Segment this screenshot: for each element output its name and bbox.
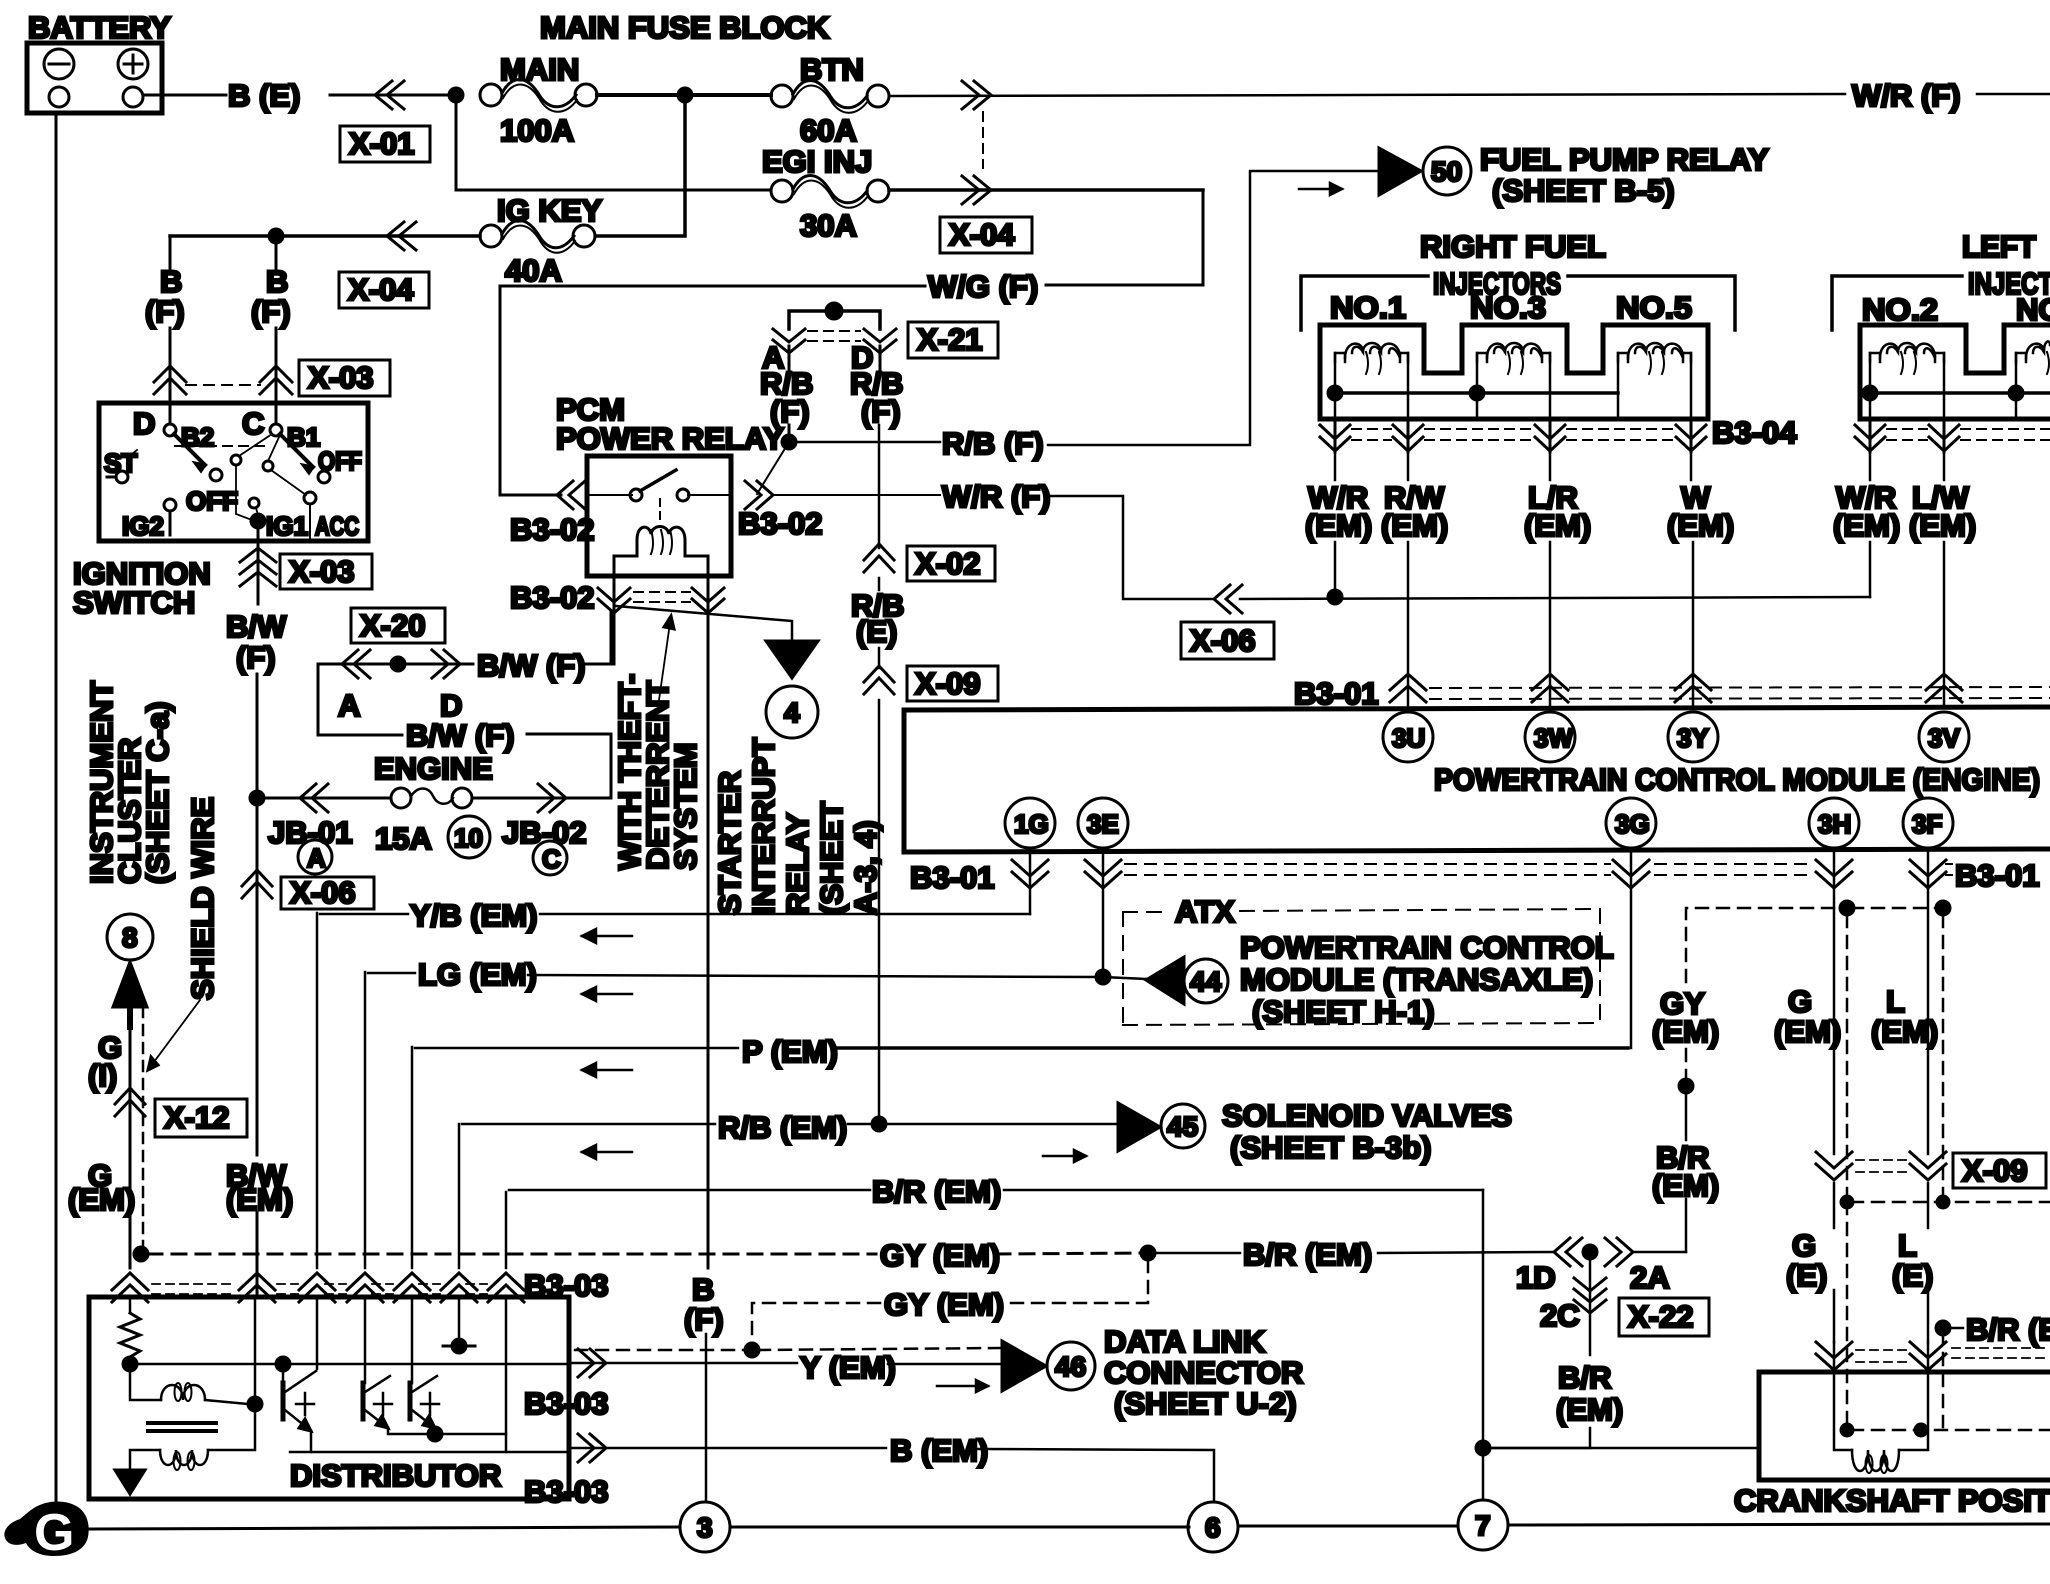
wire LG to transaxle module — [1103, 977, 1146, 979]
svg-text:DATA LINK: DATA LINK — [1104, 1324, 1266, 1359]
connector B3-01 top chevrons — [1390, 674, 2050, 702]
pin 3V circled — [1919, 712, 1969, 762]
svg-text:STARTER: STARTER — [712, 771, 747, 915]
ATX dashed box — [1123, 909, 1600, 1025]
connector X-01 label — [340, 126, 430, 162]
junction dot gy 3h — [1840, 901, 1854, 915]
connector X-21 bracket — [789, 311, 880, 329]
junction dot shield br e — [1936, 1321, 1950, 1335]
svg-text:NO.5: NO.5 — [1616, 290, 1692, 325]
svg-text:(SHEET C-a): (SHEET C-a) — [140, 701, 175, 884]
arrow connector 46 — [1002, 1341, 1046, 1391]
svg-text:(E): (E) — [1892, 1258, 1933, 1293]
svg-text:3G: 3G — [1615, 809, 1650, 839]
svg-text:(EM): (EM) — [1652, 1168, 1719, 1203]
svg-text:G: G — [34, 1504, 74, 1562]
junction dot R/B join — [872, 1117, 886, 1131]
svg-text:OFF: OFF — [186, 486, 238, 516]
pin 3H circled — [1809, 798, 1859, 848]
connector X-06 label mid — [1181, 622, 1274, 659]
fuse BTN 60A — [771, 52, 889, 148]
injector INJ4 coil partial — [2016, 341, 2050, 419]
wire emitter bus q2 q3 — [388, 1428, 506, 1434]
svg-text:B/R (E: B/R (E — [1966, 1312, 2050, 1347]
connector X-06 chevron mid — [1214, 585, 1242, 613]
wire coil left leg down to B/W — [613, 612, 616, 664]
svg-text:3E: 3E — [1087, 809, 1119, 839]
wire br col inside — [505, 1297, 508, 1452]
svg-text:X-06: X-06 — [290, 875, 355, 910]
pin 7 circled — [1458, 1500, 1508, 1550]
svg-text:(I): (I) — [88, 1058, 117, 1093]
connector X-04 label right — [940, 217, 1032, 253]
wire A stub — [788, 346, 791, 371]
svg-text:C: C — [542, 844, 561, 874]
wire W/R EM left bank elbow — [1869, 452, 1872, 480]
distributor box — [89, 1297, 569, 1499]
arrow flow right y — [937, 1380, 988, 1392]
pin 3 circled — [680, 1502, 730, 1552]
svg-text:X-03: X-03 — [289, 554, 354, 589]
svg-text:3U: 3U — [1392, 723, 1425, 753]
connector X-03 label lower — [280, 554, 372, 589]
junction dot X-20 — [391, 657, 405, 671]
svg-text:ATX: ATX — [1175, 894, 1235, 929]
junction dot shield g — [1841, 1196, 1853, 1208]
pin 44 circled — [1184, 959, 1228, 1003]
svg-text:(EM): (EM) — [1652, 1014, 1719, 1049]
wire 3E down — [1102, 848, 1105, 977]
wire IG KEY output left — [170, 234, 480, 238]
wire ignition feeds into box — [169, 396, 172, 424]
wire R/B(E) seg2 — [878, 648, 881, 668]
label with theft deterrent system — [612, 674, 703, 870]
pin 3F circled — [1903, 798, 1953, 848]
wire B/W down to engine fuse — [256, 674, 259, 798]
wire MAIN junction down to IG KEY — [596, 95, 685, 236]
wire B/W down to distributor — [256, 798, 259, 1155]
arrow flow right 45 — [1043, 1150, 1086, 1162]
svg-text:1D: 1D — [1516, 1260, 1556, 1295]
bracket right injectors — [1301, 276, 1428, 330]
wire igniter bus — [130, 1363, 566, 1366]
svg-text:C: C — [242, 406, 264, 441]
wire crank feed right — [1486, 1447, 1759, 1450]
svg-text:8: 8 — [122, 922, 138, 953]
wire R/B(F) diag to relay out — [757, 442, 789, 494]
svg-text:(EM): (EM) — [1774, 1014, 1841, 1049]
wire injector power bus left bank — [1870, 391, 2050, 395]
wire R/B (EM) — [458, 1124, 461, 1268]
arrow connector 50 — [1379, 148, 1421, 195]
junction dot X-21 — [826, 303, 842, 319]
svg-text:X-09: X-09 — [1962, 1153, 2027, 1188]
junction dot engine fuse left — [250, 791, 264, 805]
svg-text:B3-02: B3-02 — [738, 506, 822, 541]
svg-text:(E): (E) — [856, 614, 897, 649]
wire W/G to PCM relay — [500, 286, 925, 495]
connector X-12 chevrons — [115, 1088, 145, 1116]
injector INJ2 coil — [1870, 343, 1944, 419]
junction dot gy 3f — [1936, 901, 1950, 915]
label instrument cluster — [84, 681, 175, 884]
connector X-01 chevrons — [375, 81, 404, 109]
svg-text:B/R (EM): B/R (EM) — [1243, 1237, 1372, 1272]
wire R/B(F) line — [789, 441, 940, 444]
svg-text:GY (EM): GY (EM) — [880, 1238, 1000, 1273]
transistor Q1 — [283, 1364, 316, 1452]
svg-text:B/W (F): B/W (F) — [477, 648, 585, 683]
svg-text:SWITCH: SWITCH — [73, 585, 195, 620]
wire P (EM) — [411, 1047, 414, 1268]
svg-text:(SHEET B-3b): (SHEET B-3b) — [1230, 1130, 1432, 1165]
sensor coil — [1834, 1342, 1928, 1473]
injector INJ1 coil — [1335, 343, 1408, 419]
junction dot shield g2 — [1841, 1424, 1853, 1436]
resistor R1 — [120, 1297, 140, 1364]
PCM engine box — [904, 707, 2050, 852]
wire L/R EM down to 3W — [1549, 452, 1552, 480]
wire B(F) resume — [705, 1334, 708, 1502]
junction dot seven — [1476, 1441, 1490, 1455]
connector X-06 label — [281, 877, 374, 909]
svg-text:X-22: X-22 — [1628, 1299, 1693, 1334]
wire LG (EM) — [364, 972, 367, 1268]
connector X-22 chevron left — [1554, 1238, 1582, 1266]
svg-text:CRANKSHAFT POSITI: CRANKSHAFT POSITI — [1734, 1483, 2050, 1518]
svg-text:X-04: X-04 — [348, 272, 414, 307]
wire B/R (EM) top — [505, 1192, 508, 1268]
svg-text:NO.2: NO.2 — [1862, 292, 1938, 327]
connector X-12 label — [155, 1099, 247, 1137]
svg-text:POWER RELAY: POWER RELAY — [556, 421, 784, 456]
connector X-06 chevrons — [242, 870, 272, 898]
svg-text:X-21: X-21 — [917, 322, 982, 357]
wire IG1 output — [257, 528, 260, 546]
svg-text:W/G (F): W/G (F) — [928, 269, 1038, 304]
svg-text:ST: ST — [104, 448, 137, 478]
wire shield dashed — [142, 1007, 145, 1252]
connector X-21 chevrons A — [773, 329, 805, 353]
svg-text:X-01: X-01 — [349, 126, 414, 161]
svg-text:B/R (EM): B/R (EM) — [872, 1174, 1001, 1209]
pin 4 circled — [766, 686, 818, 738]
svg-text:W/R (F): W/R (F) — [942, 479, 1050, 514]
svg-text:X-20: X-20 — [360, 608, 425, 643]
svg-text:B3-02: B3-02 — [510, 512, 594, 547]
svg-text:40A: 40A — [505, 253, 562, 288]
connector B3-03 chevron y — [578, 1349, 606, 1377]
junction dot coil top — [248, 1397, 262, 1411]
ignition coil T1 secondary — [130, 1411, 255, 1470]
pin 3G circled — [1606, 798, 1656, 848]
svg-text:3Y: 3Y — [1677, 723, 1709, 753]
svg-text:100A: 100A — [500, 113, 574, 148]
junction dot inj2 — [1863, 386, 1877, 400]
connector JB-01 chevrons — [300, 784, 328, 812]
svg-text:B3-01: B3-01 — [1294, 676, 1378, 711]
svg-text:(EM): (EM) — [1909, 508, 1976, 543]
svg-text:IG2: IG2 — [122, 511, 164, 541]
svg-text:SOLENOID VALVES: SOLENOID VALVES — [1222, 1098, 1512, 1133]
wire coil right leg down (B F) — [707, 612, 710, 1268]
svg-text:3F: 3F — [1912, 809, 1942, 839]
arrow connector 4 — [766, 641, 818, 678]
svg-text:(EM): (EM) — [1305, 508, 1372, 543]
svg-text:R/B (EM): R/B (EM) — [718, 1110, 847, 1145]
svg-text:3: 3 — [697, 1512, 713, 1543]
svg-text:60A: 60A — [800, 113, 857, 148]
wire B/W resume — [256, 1213, 259, 1297]
svg-text:(F): (F) — [861, 394, 901, 429]
fuse MAIN 100A — [480, 52, 597, 148]
svg-text:(F): (F) — [236, 640, 276, 675]
wire shield bus dashed right — [1851, 1201, 2050, 1204]
connector chevrons IG KEY — [387, 222, 416, 250]
connector X-03 label — [299, 360, 390, 396]
pin C circled — [533, 841, 567, 875]
svg-text:(EM): (EM) — [1667, 508, 1734, 543]
svg-text:(EM): (EM) — [226, 1182, 293, 1217]
svg-text:(EM): (EM) — [1556, 1392, 1623, 1427]
wire lg into q2 — [364, 1297, 367, 1383]
fuse IG KEY 40A — [480, 193, 602, 288]
connector X-09 chevrons — [864, 666, 894, 694]
svg-text:R/B (F): R/B (F) — [942, 426, 1044, 461]
wire EGI corner down to W/G — [1046, 190, 1203, 285]
connector X-02 chevrons — [864, 544, 894, 572]
svg-text:(EM): (EM) — [1381, 508, 1448, 543]
svg-text:MODULE (TRANSAXLE): MODULE (TRANSAXLE) — [1240, 962, 1593, 997]
arrow connector 45 — [1118, 1103, 1160, 1151]
wire MAIN to BTN — [597, 93, 771, 97]
wire relay contact — [587, 494, 632, 496]
connector X-09 right chevrons — [1816, 1152, 1946, 1180]
pin 1G circled — [1005, 798, 1055, 848]
wire ground bus — [90, 1527, 680, 1529]
connector chevrons after EGI — [962, 176, 991, 204]
transformer core — [148, 1421, 216, 1425]
svg-text:LEFT: LEFT — [1962, 229, 2036, 264]
dashed connector link — [982, 112, 984, 168]
svg-text:50: 50 — [1431, 156, 1462, 187]
svg-text:SYSTEM: SYSTEM — [668, 743, 703, 870]
pin 46 circled — [1047, 1342, 1095, 1390]
svg-text:(SHEET H-1): (SHEET H-1) — [1252, 994, 1435, 1029]
svg-text:B/R: B/R — [1558, 1360, 1611, 1395]
svg-text:B3-03: B3-03 — [524, 1386, 608, 1421]
wire X-20 line — [318, 663, 390, 666]
svg-text:W/R (F): W/R (F) — [1852, 78, 1960, 113]
wire EGI to corner — [889, 188, 1203, 192]
connector B3-02 chevron in — [557, 481, 585, 509]
fuse EGI INJ 30A — [762, 144, 889, 243]
svg-text:X-04: X-04 — [949, 217, 1015, 252]
pin 3U circled — [1383, 712, 1433, 762]
connector X-21 chevrons D — [864, 329, 896, 353]
svg-text:CONNECTOR: CONNECTOR — [1104, 1355, 1303, 1390]
svg-text:3W: 3W — [1534, 723, 1573, 753]
svg-text:X-02: X-02 — [915, 546, 980, 581]
junction dot gy col — [1679, 1079, 1693, 1093]
arrow flow left 1 — [582, 929, 632, 943]
svg-text:X-12: X-12 — [164, 1100, 229, 1135]
wire rb termination — [458, 1297, 461, 1346]
wire B(F) right drop — [275, 236, 278, 268]
pin A circled — [298, 840, 332, 874]
transistor Q3 — [410, 1376, 439, 1428]
fuse ENGINE 15A — [374, 751, 493, 856]
junction dot W/R join — [1328, 590, 1342, 604]
wire Y/B (EM) — [316, 913, 319, 1268]
connector B3-02 chevron out — [745, 481, 773, 509]
svg-text:EGI INJ: EGI INJ — [762, 144, 872, 179]
injector INJ5 coil — [1618, 343, 1691, 419]
svg-text:FUEL PUMP RELAY: FUEL PUMP RELAY — [1480, 142, 1769, 177]
svg-text:NO.3: NO.3 — [1470, 290, 1546, 325]
wire G E down — [1833, 1183, 1836, 1228]
svg-text:(SHEET B-5): (SHEET B-5) — [1492, 173, 1675, 208]
svg-text:(F): (F) — [251, 294, 291, 329]
arrow shield annotation — [148, 1000, 200, 1070]
wire R/W EM down to 3U — [1407, 452, 1410, 480]
wire injector power bus — [1335, 391, 1618, 395]
arrow flow left 2 — [582, 987, 632, 1001]
wire relay out to W/R — [775, 494, 940, 496]
svg-text:(EM): (EM) — [1524, 508, 1591, 543]
label starter interrupt relay — [712, 738, 883, 915]
wire shield 3f dashed — [1942, 915, 1945, 1198]
junction dot igniter bus left — [123, 1357, 137, 1371]
svg-text:30A: 30A — [800, 208, 857, 243]
pin 3E circled — [1078, 798, 1128, 848]
svg-text:B/W: B/W — [226, 609, 287, 644]
wire B/W(F) lower to fuse riser — [527, 734, 611, 798]
svg-text:15A: 15A — [375, 821, 432, 856]
connector X-02 label — [907, 546, 995, 581]
connector X-22 label — [1619, 1298, 1709, 1336]
wire B(F) left to connector — [169, 328, 172, 396]
junction dot shield gy — [134, 1247, 148, 1261]
svg-text:(EM): (EM) — [1871, 1014, 1938, 1049]
wire W/R(E) riser — [878, 425, 881, 548]
svg-text:7: 7 — [1475, 1510, 1491, 1541]
connector X-22 chevron right — [1605, 1238, 1633, 1266]
wire battery negative down — [55, 113, 58, 1506]
svg-text:44: 44 — [1190, 966, 1222, 997]
junction dot gy br — [1141, 1246, 1155, 1260]
connector JB-02 chevrons — [538, 784, 566, 812]
svg-text:Y (EM): Y (EM) — [800, 1350, 896, 1385]
wire 3F down — [1927, 848, 1930, 1154]
pin 8 circled — [107, 914, 153, 960]
wire W/R EM down — [1334, 452, 1337, 480]
wire yb into q1 — [316, 1297, 319, 1369]
svg-text:B3-02: B3-02 — [510, 580, 594, 615]
transistor Q2 — [363, 1376, 392, 1428]
wire GY riser to BR — [1685, 1199, 1688, 1252]
part number 10 circled — [448, 816, 490, 858]
connector B3-02 lower dashed — [598, 576, 724, 613]
svg-text:POWERTRAIN CONTROL: POWERTRAIN CONTROL — [1240, 930, 1614, 965]
svg-text:2A: 2A — [1630, 1260, 1670, 1295]
junction dot inj3 — [1470, 386, 1484, 400]
svg-text:B (EM): B (EM) — [890, 1433, 988, 1468]
arrow connector 44 — [1146, 957, 1184, 1004]
relay K1 PCM power relay — [587, 456, 731, 576]
wire 2C branch down — [1589, 1259, 1592, 1355]
pin 45 circled — [1161, 1104, 1205, 1148]
wire 2C branch to ground seven — [1483, 1428, 1590, 1448]
junction dot before BTN — [678, 88, 692, 102]
wire B/W(F) to relay coil riser — [585, 612, 611, 664]
wire diagonal to circle 4 — [616, 606, 792, 641]
wire B(F) right to connector — [275, 328, 278, 396]
wire D stub — [879, 346, 882, 371]
wire (F) stub — [788, 425, 791, 442]
wire 3H down — [1833, 848, 1836, 1154]
arrow spark output — [115, 1470, 145, 1494]
junction dot inj1 — [1328, 386, 1342, 400]
svg-text:POWERTRAIN CONTROL MODULE (ENG: POWERTRAIN CONTROL MODULE (ENGINE) — [1434, 762, 2040, 797]
connector B3-04 left bank — [1855, 419, 2050, 452]
wire dashed X-21 link — [808, 330, 860, 332]
injector shell left bank — [1860, 325, 2050, 419]
svg-text:B (E): B (E) — [228, 78, 300, 113]
wire B (EM) output — [569, 1447, 886, 1450]
svg-text:P (EM): P (EM) — [742, 1034, 838, 1069]
connector X-09 label — [907, 666, 998, 701]
wire GY (EM) dashed main — [148, 1253, 1144, 1254]
svg-text:B3-04: B3-04 — [1712, 415, 1797, 450]
wire stub B/R (E) — [1947, 1327, 1963, 1330]
wire bw to coil dot — [254, 1297, 257, 1404]
pin 6 circled — [1188, 1502, 1238, 1552]
ignition coil T1 primary — [130, 1364, 248, 1404]
svg-text:ACC: ACC — [315, 511, 359, 541]
pin 3W circled — [1525, 712, 1575, 762]
svg-text:INTERRUPT: INTERRUPT — [746, 738, 781, 915]
svg-text:LG (EM): LG (EM) — [418, 957, 537, 992]
ignition switch SW1 — [99, 403, 368, 541]
svg-text:SHIELD WIRE: SHIELD WIRE — [185, 797, 220, 1000]
connector X-20 chevron D — [432, 650, 460, 678]
wire shield dashed to sensor — [1846, 1202, 1849, 1427]
svg-text:45: 45 — [1167, 1111, 1198, 1142]
battery BAT1 — [27, 10, 171, 113]
wire B(F) left drop — [169, 236, 172, 268]
svg-text:(F): (F) — [684, 1302, 724, 1337]
wire BTN to W/R (F) — [889, 94, 1845, 96]
wire dashed X-03 link — [186, 384, 260, 386]
svg-text:NO: NO — [2016, 292, 2050, 327]
wire shield bus2 dashed — [1851, 1429, 2050, 1432]
connector B3-03 chevron b — [578, 1434, 606, 1462]
junction dot q bus — [428, 1427, 442, 1441]
junction dot igniter q1 — [276, 1357, 290, 1371]
junction dot IG KEY branch — [269, 229, 283, 243]
wire W/R feed line — [1240, 597, 1870, 599]
connector X-03 triple chevron — [240, 548, 276, 586]
arrow flow left 4 — [582, 1145, 632, 1159]
svg-text:MAIN FUSE BLOCK: MAIN FUSE BLOCK — [540, 10, 830, 45]
wire B(E) to X-01 — [330, 94, 452, 97]
svg-text:1G: 1G — [1014, 809, 1049, 839]
connector X-04 label left — [339, 272, 429, 308]
wire emitter bus q1 — [290, 1451, 566, 1454]
junction dot X-22 — [1583, 1245, 1597, 1259]
connector B3-01 bottom chevrons — [1012, 860, 1952, 888]
